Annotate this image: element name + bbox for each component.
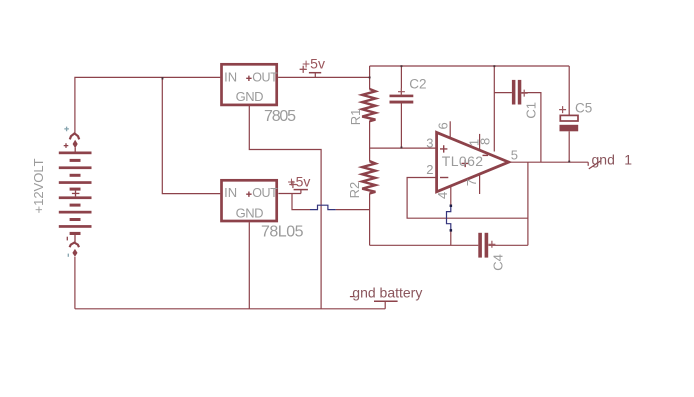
svg-text:R1: R1 [348, 109, 363, 126]
svg-text:5: 5 [511, 147, 518, 162]
svg-text:TL062: TL062 [442, 153, 484, 169]
svg-text:3: 3 [426, 136, 433, 151]
svg-text:4: 4 [435, 192, 450, 199]
svg-text:2: 2 [426, 162, 433, 177]
svg-text:OUT: OUT [252, 186, 278, 200]
svg-text:+12VOLT: +12VOLT [31, 158, 46, 213]
svg-text:gnd battery: gnd battery [352, 285, 422, 301]
svg-text:7: 7 [464, 179, 479, 186]
svg-text:+5v: +5v [302, 55, 325, 71]
svg-text:IN: IN [224, 69, 237, 84]
svg-text:7805: 7805 [264, 108, 296, 125]
svg-text:GND: GND [236, 89, 264, 104]
svg-text:GND: GND [236, 206, 264, 221]
svg-text:C4: C4 [490, 254, 505, 271]
svg-text:R2: R2 [347, 182, 362, 199]
svg-text:C2: C2 [409, 77, 426, 92]
svg-text:1: 1 [624, 151, 632, 167]
svg-text:OUT: OUT [252, 70, 278, 84]
svg-text:78L05: 78L05 [261, 224, 304, 241]
svg-text:C1: C1 [523, 102, 538, 119]
svg-text:gnd: gnd [592, 151, 615, 167]
svg-text:IN: IN [224, 185, 237, 200]
svg-text:8: 8 [477, 138, 492, 145]
svg-text:+5v: +5v [287, 174, 310, 190]
svg-text:6: 6 [435, 122, 450, 129]
svg-text:C5: C5 [575, 100, 592, 115]
